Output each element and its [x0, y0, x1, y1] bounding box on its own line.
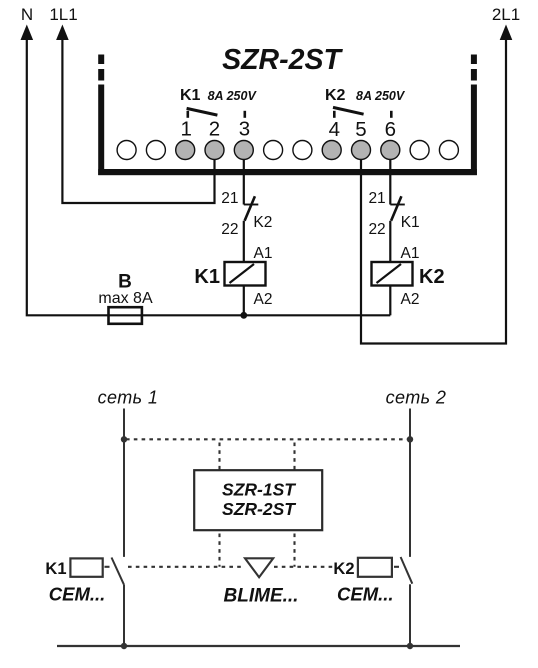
svg-text:max 8A: max 8A [98, 290, 153, 307]
svg-text:21: 21 [221, 190, 238, 207]
svg-text:K2: K2 [333, 560, 354, 578]
svg-text:сеть 2: сеть 2 [386, 388, 447, 408]
svg-text:1: 1 [180, 117, 191, 140]
svg-text:21: 21 [368, 190, 385, 207]
svg-text:5: 5 [355, 118, 366, 141]
svg-text:2L1: 2L1 [492, 5, 520, 24]
svg-text:K2: K2 [419, 266, 445, 288]
svg-text:SZR-1ST: SZR-1ST [222, 479, 296, 499]
svg-text:2: 2 [209, 117, 220, 140]
svg-text:K2: K2 [325, 87, 346, 104]
svg-text:сеть 1: сеть 1 [98, 388, 159, 408]
svg-text:22: 22 [368, 221, 385, 238]
svg-text:A1: A1 [401, 245, 420, 262]
svg-text:N: N [21, 5, 33, 24]
svg-text:K1: K1 [180, 87, 201, 104]
svg-text:BLIME...: BLIME... [224, 586, 299, 607]
svg-text:4: 4 [329, 118, 340, 141]
svg-text:K2: K2 [253, 214, 272, 231]
svg-text:SZR-2ST: SZR-2ST [222, 499, 296, 519]
svg-text:1L1: 1L1 [49, 5, 77, 24]
svg-text:СЕМ...: СЕМ... [49, 584, 106, 605]
svg-text:СЕМ...: СЕМ... [337, 584, 394, 605]
svg-text:SZR-2ST: SZR-2ST [222, 44, 343, 76]
svg-text:K1: K1 [401, 214, 420, 231]
svg-text:K1: K1 [194, 266, 220, 288]
svg-text:K1: K1 [45, 560, 66, 578]
svg-text:A2: A2 [401, 291, 420, 308]
svg-text:3: 3 [239, 117, 250, 140]
svg-text:6: 6 [385, 118, 396, 141]
svg-text:22: 22 [221, 221, 238, 238]
svg-text:A1: A1 [254, 245, 273, 262]
svg-text:8A 250V: 8A 250V [208, 89, 258, 103]
svg-text:8A 250V: 8A 250V [356, 89, 406, 103]
svg-text:A2: A2 [254, 291, 273, 308]
